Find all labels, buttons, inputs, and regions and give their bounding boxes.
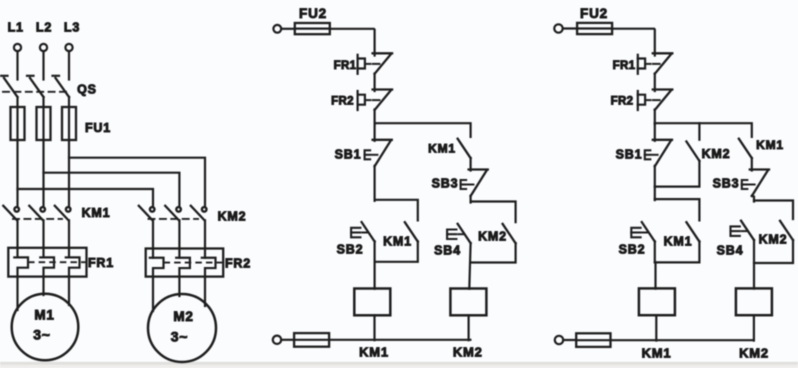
svg-text:3~: 3~	[33, 327, 51, 343]
svg-text:FU2: FU2	[299, 6, 327, 21]
wire L1 to QS	[16, 51, 18, 79]
terminal L1	[8, 21, 24, 52]
wire KM1 to SB3	[470, 158, 472, 171]
control-2 bottom bus wire	[611, 339, 754, 341]
label FR1	[334, 60, 357, 72]
wire FR2 to node A	[374, 110, 376, 125]
terminal control-1 bottom	[273, 336, 281, 344]
svg-text:KM2: KM2	[739, 346, 769, 361]
wire terminal to FU2 bottom	[281, 339, 294, 341]
wire coil KM1 to bottom	[373, 315, 375, 340]
wire FR1-FR2	[374, 74, 376, 92]
start button SB2' (NO)	[631, 222, 655, 241]
contactor KM1 main contact pole 3	[55, 206, 71, 248]
wire L3 to QS	[68, 51, 70, 79]
self-lock loop 1 top wire	[375, 200, 418, 221]
auxiliary contact KM2 (NO self-lock)	[503, 224, 516, 243]
svg-text:KM1: KM1	[383, 235, 412, 249]
svg-text:FR1: FR1	[334, 60, 357, 72]
fuse FU1 pole 3	[62, 107, 76, 140]
svg-text:FR1: FR1	[88, 256, 114, 270]
stop button SB3' (NC)	[742, 170, 769, 197]
wire node A down	[374, 123, 376, 141]
wire FR2' to node B	[654, 110, 656, 125]
svg-text:L1: L1	[8, 21, 24, 35]
QS linkage dashed line	[3, 91, 66, 93]
wire FU1 pole 1 down	[16, 140, 18, 206]
fuse FU2'	[577, 23, 612, 34]
thermal relay FR2 heater elements	[146, 249, 224, 277]
self-lock loop 4 bottom wire	[754, 240, 793, 263]
wire SB3 to loop 2	[470, 196, 472, 203]
svg-text:SB4: SB4	[434, 244, 461, 258]
label FR2'	[611, 96, 634, 108]
label SB3	[432, 177, 459, 191]
wire FR1 pole 3 to M1	[68, 277, 70, 305]
self-lock loop 4 top wire	[754, 201, 793, 220]
wire SB4 to coil KM2	[469, 243, 470, 289]
thermal contact FR2' (NC)	[638, 90, 673, 111]
svg-text:FR2: FR2	[331, 96, 354, 108]
wire L2 to QS	[42, 51, 44, 79]
self-lock loop 3 bottom wire	[655, 241, 700, 262]
fuse FU1 pole 2	[37, 107, 51, 140]
terminal control-2 bottom	[555, 336, 563, 344]
svg-text:KM2: KM2	[702, 147, 731, 161]
contactor KM2 main contact pole 1	[139, 206, 155, 248]
label KM1 (main)	[82, 206, 111, 220]
wire terminal to FU2'	[563, 27, 577, 29]
wire L1 tap to KM2 branch	[18, 189, 154, 206]
label KM2' (coil)	[739, 346, 769, 361]
svg-text:SB4: SB4	[717, 244, 744, 258]
contactor KM1 main contact pole 1	[3, 206, 19, 248]
label SB3'	[713, 177, 740, 191]
label SB2'	[619, 243, 646, 257]
label SB4'	[717, 244, 744, 258]
label KM1' (coil)	[642, 346, 672, 361]
wire SB2' to coil KM1'	[654, 241, 657, 288]
wire terminal to FU2' bottom	[563, 339, 576, 341]
fuse FU1 pole 1	[11, 107, 25, 140]
wire SB4' to coil KM2'	[753, 240, 755, 289]
svg-text:SB3: SB3	[432, 177, 459, 191]
self-lock loop 2 bottom wire	[471, 243, 516, 262]
svg-text:SB1: SB1	[616, 148, 643, 162]
scan edge band bottom	[0, 362, 798, 368]
wire coil KM2 to bottom	[468, 315, 470, 340]
fuse FU2	[295, 23, 330, 34]
wire FR2 pole 1 to M2	[152, 277, 154, 311]
wire SB2 to coil KM1	[374, 241, 376, 288]
auxiliary contact KM1' (NO self-lock)	[686, 222, 699, 241]
svg-text:KM2: KM2	[478, 230, 507, 244]
label SB1'	[616, 148, 643, 162]
terminal L3	[64, 21, 80, 52]
svg-text:KM1: KM1	[82, 206, 111, 220]
svg-text:3~: 3~	[171, 329, 189, 345]
switch QS pole 3	[53, 76, 70, 107]
wire SB1 to loop	[374, 166, 376, 201]
auxiliary contact KM2' (NO self-lock)	[780, 221, 793, 240]
svg-text:KM2: KM2	[218, 210, 247, 224]
label KM1' (sequence)	[756, 138, 784, 152]
svg-text:KM1: KM1	[664, 235, 693, 249]
thermal contact FR2 (NC)	[358, 90, 393, 111]
node A branch wire	[375, 123, 471, 137]
stop button SB1 (NC)	[365, 140, 392, 167]
label KM2 (main)	[218, 210, 247, 224]
svg-text:L3: L3	[64, 21, 80, 35]
self-lock loop 3 top wire	[655, 199, 700, 220]
wire FU2' to node	[612, 29, 655, 56]
svg-text:KM1: KM1	[642, 346, 672, 361]
wire FR1 pole 2 to M1	[42, 277, 44, 295]
wire FU2 to node	[330, 29, 375, 56]
label FU2'	[580, 6, 608, 21]
start button SB4' (NO)	[731, 221, 755, 240]
start button SB2 (NO)	[351, 222, 375, 241]
svg-text:FU1: FU1	[85, 121, 111, 135]
svg-text:M1: M1	[34, 308, 54, 323]
thermal contact FR1 (NC)	[358, 53, 393, 74]
KM2 main linkage dashed line	[149, 218, 199, 220]
contactor KM2 main contact pole 2	[165, 206, 181, 248]
wire coil KM1' to bottom	[655, 315, 657, 340]
start button SB4 (NO)	[447, 224, 471, 243]
stop button SB1' (NC)	[645, 140, 672, 167]
label KM2' (aux)	[759, 233, 788, 247]
wire KM2-parallel tap	[698, 123, 700, 140]
terminal control-2 top	[554, 24, 562, 32]
label FR1'	[613, 60, 636, 72]
coil KM1	[354, 289, 390, 316]
contactor KM1 main contact pole 2	[29, 206, 45, 248]
wire L2 tap to KM2 branch	[44, 173, 180, 206]
label KM1' (aux)	[664, 235, 693, 249]
coil KM1'	[639, 288, 675, 315]
svg-text:QS: QS	[77, 83, 97, 97]
sequence contact KM1 (NO)	[458, 139, 471, 158]
self-lock loop 1 bottom wire	[375, 241, 418, 261]
wire SB3' to loop 4	[752, 196, 754, 202]
wire FR1'-FR2'	[654, 74, 656, 92]
self-lock loop 2 top wire	[471, 202, 516, 223]
motor M1	[12, 294, 79, 361]
label KM1 (coil)	[359, 345, 389, 360]
terminal L2	[36, 21, 52, 52]
contactor KM2 main contact pole 3	[191, 206, 207, 248]
node B branch wire	[655, 123, 752, 137]
wire KM1' to SB3'	[751, 158, 753, 171]
svg-text:FR2: FR2	[225, 257, 251, 271]
fuse FU2 bottom	[294, 333, 329, 347]
wire FU1 pole 3 down	[68, 140, 70, 206]
wire node B down	[654, 123, 656, 141]
label KM2 (parallel)	[702, 147, 731, 161]
stop button SB3 (NC)	[461, 170, 488, 197]
svg-text:FR2: FR2	[611, 96, 634, 108]
KM1 main linkage dashed line	[13, 218, 62, 220]
svg-text:L2: L2	[36, 21, 52, 35]
thermal relay FR1 heater elements	[8, 248, 86, 277]
fuse FU2' bottom	[576, 333, 610, 347]
svg-text:SB3: SB3	[713, 177, 740, 191]
label FU2	[299, 6, 327, 21]
switch QS pole 1	[1, 76, 18, 107]
svg-text:KM2: KM2	[759, 233, 788, 247]
svg-text:KM1: KM1	[359, 345, 389, 360]
terminal control-1 top	[273, 25, 281, 33]
svg-text:KM1: KM1	[756, 138, 784, 152]
label SB4	[434, 244, 461, 258]
svg-text:SB2: SB2	[337, 243, 364, 257]
label KM2 (aux)	[478, 230, 507, 244]
motor M2	[148, 294, 216, 362]
wire coil KM2' to bottom	[753, 315, 755, 340]
sequence contact KM1' (NO)	[739, 139, 752, 158]
label KM1 (sequence)	[428, 142, 456, 156]
wire KM2-parallel join	[655, 161, 700, 187]
coil KM2'	[736, 288, 772, 315]
wire FR2 pole 3 to M2	[204, 277, 206, 306]
wire FR1 pole 1 to M1	[16, 277, 18, 310]
label KM2 (coil)	[453, 345, 483, 360]
wire FR2 pole 2 to M2	[178, 277, 180, 296]
svg-text:FR1: FR1	[613, 60, 636, 72]
svg-text:M2: M2	[173, 309, 193, 324]
auxiliary contact KM1 (NO self-lock)	[405, 222, 418, 241]
release contact KM2 (NO parallel SB1)	[686, 142, 699, 161]
svg-text:SB2: SB2	[619, 243, 646, 257]
switch QS pole 2	[27, 76, 44, 107]
svg-text:KM1: KM1	[428, 142, 456, 156]
label SB1	[335, 148, 362, 162]
svg-text:FU2: FU2	[580, 6, 608, 21]
wire terminal to FU2	[281, 28, 295, 30]
label FR1 (heater)	[88, 256, 114, 270]
wire FU1 pole 2 down	[42, 140, 44, 206]
control-1 bottom bus wire	[329, 339, 470, 341]
svg-text:KM2: KM2	[453, 345, 483, 360]
svg-text:SB1: SB1	[335, 148, 362, 162]
label QS	[77, 83, 97, 97]
label FR2	[331, 96, 354, 108]
coil KM2	[450, 289, 486, 316]
label KM1 (aux)	[383, 235, 412, 249]
thermal contact FR1' (NC)	[638, 53, 673, 74]
wire SB1' to loop	[654, 166, 656, 200]
label FU1	[85, 121, 111, 135]
label SB2	[337, 243, 364, 257]
label FR2 (heater)	[225, 257, 251, 271]
wire L3 tap to KM2 branch	[69, 158, 205, 206]
